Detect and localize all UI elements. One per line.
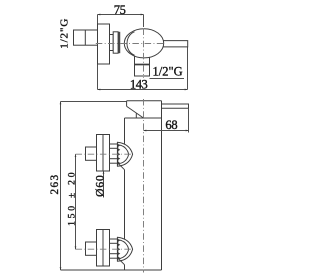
- dimension line 75: [98, 14, 144, 16]
- upper mount centerline: [76, 153, 132, 155]
- upper supply pipe: [86, 147, 97, 160]
- body column right edge: [161, 101, 163, 270]
- arrowhead 263 bottom: [60, 267, 62, 270]
- extension line 68 right: [188, 108, 190, 132]
- lower flange escutcheon: [97, 230, 110, 267]
- centerline horizontal (top view): [96, 43, 164, 45]
- lower mount centerline: [76, 248, 132, 250]
- svg-text:263: 263: [49, 174, 61, 195]
- svg-text:150 ± 20: 150 ± 20: [68, 170, 78, 226]
- upper dome shadow line: [119, 164, 125, 170]
- body cap top edge: [127, 100, 162, 102]
- body cap hidden edge tick: [135, 113, 137, 118]
- arrowhead 68 right: [186, 130, 189, 132]
- svg-text:1/2"G: 1/2"G: [58, 18, 70, 49]
- lower union dome inner: [117, 240, 128, 259]
- inlet pipe joint line: [84, 30, 86, 45]
- upper union dome inner: [117, 145, 128, 164]
- inlet pipe (top view): [74, 30, 98, 45]
- upper flange escutcheon: [97, 135, 110, 172]
- centerline vertical (top view): [143, 15, 145, 28]
- column bottom edge merged with 263 extension: [61, 269, 162, 271]
- cartridge dome ellipse (top view): [124, 29, 163, 58]
- svg-text:1/2"G: 1/2"G: [153, 65, 183, 79]
- lower union nut: [110, 239, 118, 258]
- handle lever (top view): [163, 41, 188, 47]
- upper union dome outer: [117, 142, 132, 166]
- body connector stub (top view): [110, 35, 114, 51]
- body cap shoulder diagonal: [127, 106, 144, 118]
- diameter 60 leader line: [103, 171, 105, 198]
- arrowhead 150 bottom: [75, 246, 77, 249]
- outlet collar line (bold): [135, 64, 150, 66]
- handle lever (front view): [162, 104, 189, 108]
- arrowhead 143 right: [185, 89, 188, 91]
- svg-text:Ø60: Ø60: [94, 174, 106, 197]
- svg-text:143: 143: [130, 78, 148, 92]
- lower nut flats: [110, 242, 118, 244]
- upper flange inner line: [102, 135, 104, 172]
- body column left edge (interrupted by union domes): [124, 118, 126, 144]
- svg-text:68: 68: [165, 118, 177, 132]
- arrowhead 150 top: [75, 154, 77, 157]
- arrowhead d60: [103, 171, 105, 174]
- dimension line 263: [60, 102, 62, 271]
- lower union dome outer: [117, 237, 132, 261]
- upper thread marks: [117, 144, 120, 165]
- svg-text:75: 75: [114, 3, 126, 17]
- body cap bottom edge: [125, 117, 162, 119]
- dimension line 150 +/- 20: [75, 154, 77, 249]
- upper nut flats: [110, 147, 118, 149]
- upper union nut: [110, 144, 118, 163]
- dimension line 143: [98, 89, 188, 91]
- arrowhead 263 top: [60, 102, 62, 105]
- lower dome shadow line: [119, 259, 125, 265]
- cartridge clamp band (top view): [118, 32, 120, 53]
- wire: wall-plane extension line x=97.5: [97, 15, 99, 90]
- extension line at handle tip (top view): [187, 47, 189, 90]
- arrowhead 68 left: [144, 130, 147, 132]
- leader underline for outlet label: [150, 78, 185, 80]
- arrowhead 143 left: [98, 89, 101, 91]
- arrowhead 75 right: [141, 14, 144, 16]
- centerline vertical (front view): [143, 99, 145, 273]
- wall flange (top view): [98, 24, 110, 64]
- lower flange inner line: [102, 230, 104, 267]
- body cap left edge: [126, 101, 128, 107]
- dimension line 68: [144, 130, 189, 132]
- arrowhead 75 left: [98, 14, 101, 16]
- extension line 263 top: [61, 101, 127, 103]
- lower supply pipe: [86, 242, 97, 255]
- dome inner rim arc: [127, 32, 135, 55]
- body connector ring (top view): [113, 32, 118, 53]
- outlet spout (top view, drawn under ellipse): [135, 56, 150, 76]
- lower thread marks: [117, 239, 120, 260]
